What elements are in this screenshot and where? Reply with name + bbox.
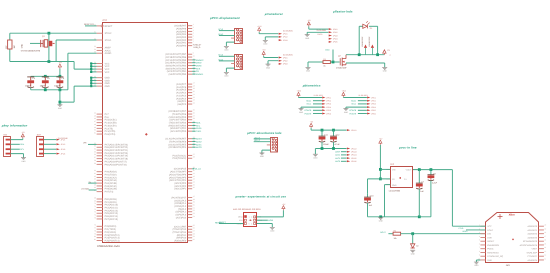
svg-text:46: 46 bbox=[193, 186, 195, 189]
svg-text:18: 18 bbox=[544, 231, 546, 234]
connector JP2 transducer A bbox=[257, 25, 292, 46]
svg-text:PH7(T4): PH7(T4) bbox=[105, 191, 114, 194]
wire GND pin bundle bbox=[60, 77, 97, 103]
svg-text:C8: C8 bbox=[433, 172, 436, 175]
svg-text:µtransducer: µtransducer bbox=[264, 12, 284, 16]
svg-text:26: 26 bbox=[193, 111, 195, 114]
svg-text:RESET: RESET bbox=[487, 240, 495, 243]
svg-text:47: 47 bbox=[94, 120, 96, 123]
ground (regulator) bbox=[378, 217, 383, 222]
svg-text:41: 41 bbox=[94, 78, 96, 81]
svg-text:+3V3: +3V3 bbox=[297, 90, 301, 93]
svg-text:10: 10 bbox=[193, 54, 195, 57]
transistor Q3 ZXM61P03F bbox=[361, 36, 374, 55]
svg-text:SS: SS bbox=[196, 70, 199, 73]
svg-text:JP5/4: JP5/4 bbox=[326, 106, 331, 109]
capacitor C4 100nF bbox=[25, 76, 36, 90]
svg-text:MISO: MISO bbox=[196, 62, 202, 65]
svg-text:50: 50 bbox=[94, 129, 96, 132]
ground (ISP) bbox=[270, 227, 275, 232]
wire drain bus bbox=[346, 53, 384, 56]
svg-text:SCK: SCK bbox=[196, 67, 201, 70]
svg-text:47: 47 bbox=[193, 195, 195, 198]
svg-text:ZXM61P03F: ZXM61P03F bbox=[368, 36, 371, 47]
wire xbee vcc bbox=[452, 226, 485, 233]
wire SV1 sda bbox=[11, 143, 25, 146]
svg-text:R4: R4 bbox=[394, 229, 396, 232]
svg-text:JP11/3: JP11/3 bbox=[351, 151, 356, 154]
node label programmer line bbox=[235, 194, 287, 198]
svg-text:JP6/5: JP6/5 bbox=[371, 109, 376, 112]
svg-text:67: 67 bbox=[94, 189, 96, 192]
svg-text:76: 76 bbox=[94, 224, 96, 227]
ground (caps) bbox=[57, 105, 62, 110]
svg-text:ADC2: ADC2 bbox=[196, 140, 202, 143]
svg-text:C13: C13 bbox=[370, 195, 375, 198]
svg-text:54: 54 bbox=[94, 148, 96, 151]
svg-text:IC3: IC3 bbox=[103, 19, 108, 22]
svg-text:GND: GND bbox=[474, 264, 479, 267]
wire gnd stem bbox=[59, 90, 62, 105]
svg-text:56: 56 bbox=[94, 153, 96, 156]
svg-text:PG3(TOSC2): PG3(TOSC2) bbox=[172, 157, 186, 160]
svg-text:33: 33 bbox=[94, 45, 96, 48]
svg-text:VIN: VIN bbox=[392, 169, 396, 172]
wire filter top bus bbox=[311, 129, 356, 132]
svg-text:SDA1: SDA1 bbox=[306, 100, 311, 103]
svg-text:AD2/DIO2: AD2/DIO2 bbox=[528, 233, 538, 236]
svg-text:(XTXD0): (XTXD0) bbox=[82, 188, 90, 191]
svg-text:22: 22 bbox=[193, 96, 195, 99]
svg-text:(T1/INT5)PD6: (T1/INT5)PD6 bbox=[172, 113, 187, 116]
node label utransducer bbox=[264, 12, 284, 16]
svg-text:(OC1A/PCINT5)PB5: (OC1A/PCINT5)PB5 bbox=[165, 59, 187, 62]
svg-text:GND: GND bbox=[306, 70, 311, 73]
svg-text:40: 40 bbox=[94, 75, 96, 78]
svg-text:(ADC5/TMS)PF5: (ADC5/TMS)PF5 bbox=[169, 176, 187, 179]
svg-text:PH2(XCK2): PH2(XCK2) bbox=[105, 176, 117, 179]
svg-text:SCK: SCK bbox=[239, 219, 243, 222]
svg-text:JP3/1: JP3/1 bbox=[283, 56, 288, 59]
svg-text:(T5)PL2: (T5)PL2 bbox=[178, 208, 187, 211]
wire VCC pin bundle bbox=[90, 62, 97, 73]
svg-text:C4: C4 bbox=[404, 178, 406, 181]
svg-text:XTXD: XTXD bbox=[458, 227, 464, 230]
svg-text:DTR/SLEEP_RQ: DTR/SLEEP_RQ bbox=[487, 255, 503, 258]
resonator Q1 CSTCE16M0V53-R0 bbox=[21, 35, 55, 52]
svg-text:68: 68 bbox=[94, 196, 96, 199]
svg-text:2: 2 bbox=[193, 26, 194, 29]
svg-text:PK3(ADC11/PCINT19): PK3(ADC11/PCINT19) bbox=[105, 155, 128, 158]
svg-text:60: 60 bbox=[94, 169, 96, 172]
svg-text:74: 74 bbox=[94, 214, 96, 217]
svg-text:21: 21 bbox=[193, 93, 195, 96]
svg-text:RTS/AD6/DIO6: RTS/AD6/DIO6 bbox=[523, 240, 538, 243]
svg-text:60: 60 bbox=[193, 238, 195, 241]
svg-text:GND: GND bbox=[58, 107, 63, 110]
svg-text:(AD5)PA5: (AD5)PA5 bbox=[176, 30, 187, 33]
svg-text:RESET-PS: RESET-PS bbox=[84, 23, 95, 26]
svg-text:1k: 1k bbox=[323, 65, 325, 68]
connector JP7 displacement A bbox=[218, 28, 242, 52]
svg-text:PL1(ICP5): PL1(ICP5) bbox=[105, 130, 116, 133]
svg-text:21-03-2061: 21-03-2061 bbox=[317, 29, 327, 32]
svg-text:42: 42 bbox=[94, 81, 96, 84]
capacitor C13 1uF bbox=[364, 193, 374, 217]
svg-text:JP6/1: JP6/1 bbox=[371, 96, 376, 99]
svg-text:PH3(OC4A): PH3(OC4A) bbox=[105, 179, 117, 182]
svg-text:(ADC2)PF2: (ADC2)PF2 bbox=[174, 185, 187, 188]
wire ISP gnd bbox=[257, 224, 273, 228]
svg-text:PH0(RXD2): PH0(RXD2) bbox=[105, 171, 117, 174]
svg-text:4: 4 bbox=[479, 235, 480, 238]
svg-text:AVR-ISP-6PIN/AVR-ISP-6PIN: AVR-ISP-6PIN/AVR-ISP-6PIN bbox=[233, 208, 261, 211]
svg-text:3: 3 bbox=[479, 231, 480, 234]
svg-text:21-03-2061: 21-03-2061 bbox=[314, 94, 323, 97]
svg-text:PL5(OC5C): PL5(OC5C) bbox=[105, 119, 117, 122]
wire vout down to xbee bbox=[451, 170, 453, 227]
svg-text:27: 27 bbox=[193, 114, 195, 117]
svg-text:49: 49 bbox=[94, 126, 96, 129]
svg-text:(ALE)PG2: (ALE)PG2 bbox=[176, 216, 187, 219]
svg-text:+5V: +5V bbox=[310, 121, 314, 124]
svg-text:5: 5 bbox=[249, 222, 250, 225]
svg-text:AVCC: AVCC bbox=[105, 49, 112, 52]
svg-text:JP5/5: JP5/5 bbox=[326, 109, 331, 112]
svg-text:49: 49 bbox=[193, 201, 195, 204]
svg-text:4: 4 bbox=[193, 32, 194, 35]
svg-text:ADC3: ADC3 bbox=[196, 138, 202, 141]
svg-text:17: 17 bbox=[544, 235, 546, 238]
wire regulator bottom bus bbox=[368, 215, 431, 218]
svg-text:32: 32 bbox=[94, 37, 96, 40]
wire ISP vcc bbox=[257, 210, 284, 217]
svg-text:PH5(OC4C): PH5(OC4C) bbox=[105, 185, 118, 188]
svg-text:6: 6 bbox=[479, 242, 480, 245]
svg-text:VREF: VREF bbox=[531, 248, 537, 251]
svg-text:19: 19 bbox=[544, 227, 546, 230]
svg-text:43: 43 bbox=[193, 178, 195, 181]
svg-text:65: 65 bbox=[94, 183, 96, 186]
svg-text:GND: GND bbox=[325, 49, 330, 52]
svg-text:(ICP5)PL1: (ICP5)PL1 bbox=[175, 211, 186, 214]
svg-text:1uF: 1uF bbox=[369, 204, 373, 207]
svg-text:ASSOC/AD5/DIO5: ASSOC/AD5/DIO5 bbox=[520, 244, 538, 247]
svg-text:ADC5: ADC5 bbox=[335, 157, 340, 160]
svg-text:SDA3: SDA3 bbox=[218, 33, 223, 36]
svg-text:(RD)PG1: (RD)PG1 bbox=[177, 234, 187, 237]
svg-text:21-03-2031: 21-03-2031 bbox=[283, 30, 293, 33]
svg-text:JP1/2: JP1/2 bbox=[61, 143, 66, 146]
svg-text:41: 41 bbox=[193, 172, 195, 175]
svg-text:ADC4: ADC4 bbox=[335, 154, 340, 157]
wire XTAL1 net bottom bbox=[10, 40, 97, 62]
power +5V arrow (filter caps) bbox=[310, 121, 314, 131]
power +5V arrow (regulator) bbox=[379, 138, 383, 181]
node label ubiometrics bbox=[302, 83, 321, 87]
svg-text:+5V: +5V bbox=[282, 203, 286, 206]
svg-text:GND: GND bbox=[487, 259, 492, 262]
svg-text:MOSI: MOSI bbox=[196, 65, 202, 68]
svg-text:(MISO/PCINT3)PB3: (MISO/PCINT3)PB3 bbox=[166, 65, 187, 68]
svg-text:GND: GND bbox=[224, 75, 229, 78]
svg-text:50: 50 bbox=[193, 203, 195, 206]
svg-text:GND: GND bbox=[263, 43, 268, 46]
svg-text:(OC0A)PG5: (OC0A)PG5 bbox=[174, 168, 187, 171]
resistor R2 1M bbox=[5, 33, 16, 61]
svg-text:C6: C6 bbox=[62, 77, 66, 80]
svg-text:LED_G: LED_G bbox=[254, 139, 261, 142]
svg-text:(OC1B/PCINT6)PB6: (OC1B/PCINT6)PB6 bbox=[165, 56, 187, 59]
svg-text:XBee: XBee bbox=[509, 213, 516, 216]
svg-text:C7: C7 bbox=[422, 181, 425, 184]
svg-text:AGND: AGND bbox=[105, 52, 112, 55]
svg-text:16: 16 bbox=[544, 239, 546, 242]
resistor R4 10k bbox=[393, 229, 401, 239]
svg-text:(OC2B/INT4)PD7: (OC2B/INT4)PD7 bbox=[168, 110, 187, 113]
svg-text:JP4/4: JP4/4 bbox=[333, 38, 338, 41]
svg-text:(A8)PC0: (A8)PC0 bbox=[177, 103, 187, 106]
svg-text:GND: GND bbox=[21, 43, 24, 48]
svg-text:9: 9 bbox=[479, 254, 480, 257]
svg-text:VCC: VCC bbox=[105, 68, 110, 71]
transistor Q2 ZXM61N03F bbox=[336, 55, 348, 70]
svg-text:1M: 1M bbox=[13, 45, 16, 48]
svg-text:PH1(TXD2): PH1(TXD2) bbox=[105, 173, 117, 176]
svg-text:GND: GND bbox=[379, 220, 384, 223]
svg-text:PK6(ADC14/PCINT22): PK6(ADC14/PCINT22) bbox=[105, 146, 129, 149]
diode D2 clamp bbox=[411, 234, 419, 248]
svg-text:45: 45 bbox=[94, 114, 96, 117]
svg-text:(ADC7/TDI)PF7: (ADC7/TDI)PF7 bbox=[170, 171, 187, 174]
svg-text:PK2(ADC10): PK2(ADC10) bbox=[105, 204, 119, 207]
svg-text:54: 54 bbox=[193, 215, 195, 218]
capacitor C12 4.7uF bbox=[330, 130, 340, 148]
svg-text:p: p bbox=[390, 55, 391, 57]
op-amp U1 XBEE module bbox=[486, 213, 539, 267]
svg-text:14: 14 bbox=[544, 246, 546, 249]
svg-text:20: 20 bbox=[193, 90, 195, 93]
ground (SV1) bbox=[21, 158, 26, 163]
svg-text:3: 3 bbox=[193, 29, 194, 32]
svg-text:µmeter- experiments at circuit: µmeter- experiments at circuit use bbox=[235, 194, 287, 198]
svg-text:51: 51 bbox=[193, 206, 195, 209]
svg-text:JP6/3: JP6/3 bbox=[371, 103, 376, 106]
svg-text:C9: C9 bbox=[387, 49, 389, 52]
node label uPCC-displacement bbox=[209, 16, 241, 20]
svg-text:SCL2: SCL2 bbox=[218, 54, 223, 57]
svg-text:PCINT8: PCINT8 bbox=[349, 109, 356, 112]
svg-text:JP11/4: JP11/4 bbox=[351, 154, 356, 157]
svg-text:VCC: VCC bbox=[487, 225, 492, 228]
connector JP11 rows bbox=[335, 151, 356, 164]
svg-text:DOUT: DOUT bbox=[487, 229, 494, 232]
svg-text:ATMEGA2560-16AU: ATMEGA2560-16AU bbox=[97, 245, 120, 248]
svg-text:JP4/1: JP4/1 bbox=[333, 28, 338, 31]
svg-text:(OC2B/PCINT4)PB4: (OC2B/PCINT4)PB4 bbox=[165, 62, 187, 65]
svg-text:78: 78 bbox=[94, 229, 96, 232]
svg-text:PL2(T5): PL2(T5) bbox=[105, 127, 114, 130]
svg-text:JP11/1: JP11/1 bbox=[351, 129, 356, 132]
svg-text:38: 38 bbox=[94, 67, 96, 70]
svg-text:SDA1: SDA1 bbox=[351, 100, 356, 103]
svg-text:66: 66 bbox=[94, 186, 96, 189]
svg-text:(A15)PC7: (A15)PC7 bbox=[176, 83, 187, 86]
svg-text:23: 23 bbox=[193, 99, 195, 102]
power +5V arrow (SV1) bbox=[11, 131, 26, 140]
capacitor C8 2.2uF bbox=[428, 170, 438, 217]
svg-text:61: 61 bbox=[94, 172, 96, 175]
svg-text:JP11/6: JP11/6 bbox=[351, 160, 356, 163]
svg-text:(ICP1/INT7)PD4: (ICP1/INT7)PD4 bbox=[169, 119, 186, 122]
wire din to xbee bbox=[401, 232, 486, 235]
svg-text:PH6(OC2B): PH6(OC2B) bbox=[105, 188, 117, 191]
wire RESET stub bbox=[84, 23, 97, 26]
ground (R1 left) bbox=[306, 62, 311, 73]
svg-text:(OC1C)PB7: (OC1C)PB7 bbox=[174, 225, 187, 228]
svg-text:57: 57 bbox=[193, 230, 195, 233]
svg-text:58: 58 bbox=[193, 232, 195, 235]
svg-text:JP11/5: JP11/5 bbox=[351, 157, 356, 160]
capacitor C5 100nF bbox=[40, 76, 51, 90]
svg-text:JP5/2: JP5/2 bbox=[326, 100, 331, 103]
svg-text:VCC: VCC bbox=[105, 71, 110, 74]
op-amp IC3 ATMEGA2560 body bbox=[97, 19, 188, 248]
wire IC3 right pins bbox=[165, 23, 194, 242]
svg-text:LED_R: LED_R bbox=[254, 136, 261, 139]
svg-text:(PCINT23)PJ7: (PCINT23)PJ7 bbox=[171, 196, 187, 199]
wire LED branch verticals bbox=[359, 26, 377, 54]
svg-text:59: 59 bbox=[94, 162, 96, 165]
svg-text:+5V: +5V bbox=[379, 138, 383, 141]
svg-text:(RXD1/INT2)PD2: (RXD1/INT2)PD2 bbox=[168, 124, 186, 127]
svg-text:6: 6 bbox=[193, 37, 194, 40]
svg-text:100nF: 100nF bbox=[40, 84, 47, 87]
svg-text:TXD1: TXD1 bbox=[196, 130, 202, 133]
svg-text:(T3/PCINT8)PE6: (T3/PCINT8)PE6 bbox=[169, 140, 187, 143]
svg-text:JP3/2: JP3/2 bbox=[283, 60, 288, 63]
connector JP4 flexion bbox=[305, 19, 338, 44]
svg-text:µbiometrics: µbiometrics bbox=[302, 83, 321, 87]
svg-text:79: 79 bbox=[94, 232, 96, 235]
ground (Q2) bbox=[382, 67, 387, 72]
svg-text:PJ2(XCK3): PJ2(XCK3) bbox=[105, 231, 117, 234]
svg-text:(TXD1/INT3)PD3: (TXD1/INT3)PD3 bbox=[169, 122, 187, 125]
svg-text:SCL: SCL bbox=[196, 124, 201, 127]
svg-text:69: 69 bbox=[94, 199, 96, 202]
svg-text:(AD1)PA1: (AD1)PA1 bbox=[176, 42, 187, 45]
wire Q2 source to gnd bbox=[346, 63, 385, 67]
svg-text:PJ3(PCINT12): PJ3(PCINT12) bbox=[105, 234, 120, 237]
power +5V arrow (led bus) bbox=[383, 49, 391, 57]
wire gate net stub bbox=[325, 49, 333, 62]
wire caps bottom bus bbox=[31, 88, 68, 91]
svg-text:D2: D2 bbox=[416, 244, 418, 247]
svg-text:(MOSI/PCINT2)PB2: (MOSI/PCINT2)PB2 bbox=[166, 67, 187, 70]
svg-text:C12: C12 bbox=[336, 134, 341, 137]
svg-text:38: 38 bbox=[193, 156, 195, 159]
svg-text:PK4(ADC12/PCINT20): PK4(ADC12/PCINT20) bbox=[105, 152, 129, 155]
svg-text:(ICP4)PL0: (ICP4)PL0 bbox=[175, 214, 186, 217]
wire caps top bus bbox=[31, 75, 62, 78]
svg-text:(AD2)PA2: (AD2)PA2 bbox=[176, 39, 187, 42]
svg-text:PK2(ADC10/PCINT18): PK2(ADC10/PCINT18) bbox=[105, 158, 129, 161]
svg-text:12: 12 bbox=[544, 254, 546, 257]
svg-text:GND: GND bbox=[313, 156, 318, 159]
svg-text:20: 20 bbox=[544, 224, 546, 227]
svg-text:21-03-2031: 21-03-2031 bbox=[283, 53, 293, 56]
svg-text:PK7(ADC15): PK7(ADC15) bbox=[105, 218, 119, 221]
svg-text:DO8: DO8 bbox=[487, 236, 492, 239]
svg-text:31: 31 bbox=[94, 31, 96, 34]
svg-text:PL0(ICP4): PL0(ICP4) bbox=[105, 133, 116, 136]
svg-text:57: 57 bbox=[94, 156, 96, 159]
wire IC3 left pins bbox=[94, 23, 128, 242]
svg-text:PK5(ADC13): PK5(ADC13) bbox=[105, 212, 119, 215]
svg-text:ADC0: ADC0 bbox=[196, 146, 202, 149]
svg-text:18: 18 bbox=[193, 84, 195, 87]
svg-text:(SDA/INT1)PD1: (SDA/INT1)PD1 bbox=[170, 127, 187, 130]
svg-text:JP6/2: JP6/2 bbox=[371, 100, 376, 103]
svg-text:GND: GND bbox=[105, 79, 110, 82]
svg-text:PK6(ADC14): PK6(ADC14) bbox=[105, 215, 119, 218]
svg-text:+12V: +12V bbox=[257, 25, 262, 28]
wire din net bbox=[380, 231, 393, 234]
svg-text:PK0(ADC8): PK0(ADC8) bbox=[105, 198, 117, 201]
svg-text:JP2/2: JP2/2 bbox=[283, 36, 288, 39]
svg-text:RXD1: RXD1 bbox=[196, 127, 202, 130]
wire VCC bundle feed bbox=[74, 62, 91, 70]
svg-text:C5: C5 bbox=[47, 77, 51, 80]
capacitor C6 100nF bbox=[54, 76, 65, 90]
svg-text:JP4/5: JP4/5 bbox=[333, 41, 338, 44]
svg-text:(OC2A/PCINT7)PB7: (OC2A/PCINT7)PB7 bbox=[165, 53, 187, 56]
svg-text:PK3(ADC11): PK3(ADC11) bbox=[105, 206, 118, 209]
connector SV2 bbox=[37, 134, 68, 157]
svg-text:80: 80 bbox=[94, 235, 96, 238]
svg-text:GND: GND bbox=[224, 49, 229, 52]
wire vout bus bbox=[413, 168, 452, 171]
svg-text:48: 48 bbox=[94, 123, 96, 126]
svg-text:46: 46 bbox=[94, 117, 96, 120]
svg-text:+3V3: +3V3 bbox=[342, 90, 346, 93]
wire ISP mosi stub bbox=[257, 219, 274, 222]
svg-text:7: 7 bbox=[193, 40, 194, 43]
svg-text:SCL1: SCL1 bbox=[306, 103, 311, 106]
svg-text:JP4/3: JP4/3 bbox=[333, 34, 338, 37]
svg-text:73: 73 bbox=[94, 211, 96, 214]
ground (xbee) bbox=[474, 260, 481, 267]
svg-text:53: 53 bbox=[193, 212, 195, 215]
svg-text:JP1/1: JP1/1 bbox=[61, 138, 66, 141]
svg-text:(OC5C)PL5: (OC5C)PL5 bbox=[174, 199, 187, 202]
svg-text:2.2uF: 2.2uF bbox=[432, 182, 438, 185]
svg-text:(A9)PC1: (A9)PC1 bbox=[177, 100, 187, 103]
svg-text:AD1/DIO1: AD1/DIO1 bbox=[528, 229, 538, 232]
svg-text:10k: 10k bbox=[394, 237, 397, 240]
svg-text:JP9: JP9 bbox=[83, 142, 86, 145]
svg-text:PCINT8: PCINT8 bbox=[304, 109, 311, 112]
svg-text:JP4/2: JP4/2 bbox=[333, 31, 338, 34]
svg-text:GND: GND bbox=[260, 155, 265, 158]
svg-text:(AD6)PA6: (AD6)PA6 bbox=[176, 27, 187, 30]
svg-text:PL3(OC5A): PL3(OC5A) bbox=[105, 124, 117, 127]
svg-text:42: 42 bbox=[193, 175, 195, 178]
svg-text:(WR)PG0: (WR)PG0 bbox=[176, 237, 187, 240]
svg-text:µPCC-displacement: µPCC-displacement bbox=[209, 16, 241, 20]
svg-text:70: 70 bbox=[94, 202, 96, 205]
svg-text:PJ5(PCINT14): PJ5(PCINT14) bbox=[105, 239, 120, 242]
